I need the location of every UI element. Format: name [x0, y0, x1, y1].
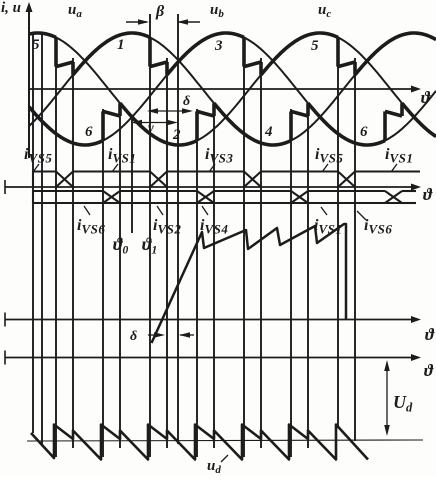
- svg-text:5: 5: [311, 38, 319, 54]
- svg-text:β: β: [155, 3, 165, 20]
- svg-text:i, u: i, u: [1, 0, 21, 16]
- svg-text:δ: δ: [183, 94, 190, 109]
- svg-text:1: 1: [117, 37, 125, 53]
- svg-text:2: 2: [172, 127, 181, 143]
- svg-text:3: 3: [214, 38, 223, 54]
- svg-text:6: 6: [85, 124, 93, 140]
- svg-text:ϑ: ϑ: [425, 325, 435, 344]
- svg-text:ϑ: ϑ: [423, 185, 433, 204]
- svg-text:γ: γ: [148, 121, 154, 136]
- svg-text:5: 5: [32, 37, 40, 53]
- svg-text:δ: δ: [130, 329, 137, 344]
- svg-text:6: 6: [360, 124, 368, 140]
- svg-text:4: 4: [264, 124, 273, 140]
- svg-text:ϑ: ϑ: [424, 361, 434, 380]
